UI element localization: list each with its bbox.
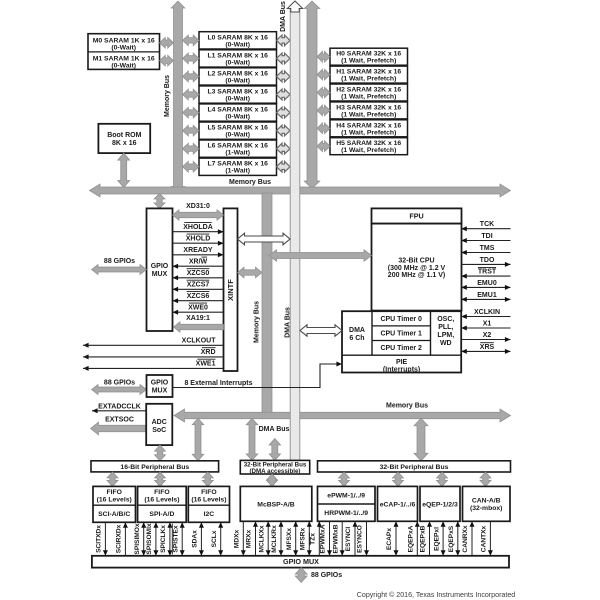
arrow H2-bus xyxy=(317,87,330,98)
svg-text:CPU Timer 0: CPU Timer 0 xyxy=(380,316,422,323)
svg-text:EQEPxI: EQEPxI xyxy=(433,527,440,551)
pin EPWMxA xyxy=(320,521,332,556)
svg-text:16-Bit Peripheral Bus: 16-Bit Peripheral Bus xyxy=(120,464,189,471)
svg-text:H3 SARAM 32K x 16: H3 SARAM 32K x 16 xyxy=(336,104,401,111)
svg-text:WD: WD xyxy=(440,340,452,347)
svg-text:Copyright © 2016, Texas Instru: Copyright © 2016, Texas Instruments Inco… xyxy=(357,591,516,599)
label L5 SARAM xyxy=(207,125,268,139)
svg-text:CPU Timer 1: CPU Timer 1 xyxy=(380,331,422,338)
signal XWE0 xyxy=(173,303,224,315)
svg-text:EQEPxS: EQEPxS xyxy=(448,525,455,552)
box McBSP-A/B xyxy=(240,486,311,521)
pin CANRXx xyxy=(462,521,474,556)
arrow H0-bus xyxy=(317,51,330,62)
label DMA Bus (above peripheral bus) xyxy=(259,426,290,433)
label M0 SARAM xyxy=(93,38,155,52)
pin MRXx xyxy=(246,521,258,556)
svg-text:SCITXDx: SCITXDx xyxy=(96,525,103,553)
svg-text:(Interrupts): (Interrupts) xyxy=(383,366,420,373)
box M0/M1 SARAM outer xyxy=(88,34,160,70)
label OSC PLL LPM WD xyxy=(437,316,454,347)
svg-text:L0 SARAM 8K x 16: L0 SARAM 8K x 16 xyxy=(207,34,268,41)
pin TZx xyxy=(309,521,321,556)
label GPIO MUX xyxy=(151,263,169,278)
pin ECAPx xyxy=(386,521,398,556)
svg-text:EXTSOC: EXTSOC xyxy=(105,416,134,423)
box L6 SARAM xyxy=(199,140,277,157)
svg-text:(1-Wait): (1-Wait) xyxy=(225,168,250,175)
label CPU Timer 2 xyxy=(380,345,422,352)
pin SCLx xyxy=(211,522,223,556)
pin TCK xyxy=(461,221,510,231)
label SPI-A/D xyxy=(149,511,174,518)
arrow 88 GPIOs (upper) xyxy=(92,265,147,275)
svg-text:L2 SARAM 8K x 16: L2 SARAM 8K x 16 xyxy=(207,70,268,77)
svg-text:(0-Wait): (0-Wait) xyxy=(225,96,250,103)
pin SDAx xyxy=(192,522,204,556)
pin SPISOMIx xyxy=(146,522,158,556)
divider PIE top xyxy=(342,354,461,356)
arrow XINTF-memorybus (gray) xyxy=(238,267,263,278)
svg-text:(1 Wait, Prefetch): (1 Wait, Prefetch) xyxy=(341,111,396,118)
svg-text:MUX: MUX xyxy=(152,388,168,395)
svg-text:8 External Interrupts: 8 External Interrupts xyxy=(184,380,252,387)
svg-text:H4 SARAM 32K x 16: H4 SARAM 32K x 16 xyxy=(336,122,401,129)
svg-text:XZCS0: XZCS0 xyxy=(187,270,210,277)
svg-text:SCLx: SCLx xyxy=(211,530,218,547)
svg-text:XWE1: XWE1 xyxy=(196,360,216,367)
svg-text:(32-mbox): (32-mbox) xyxy=(470,505,502,512)
arrow L7-memorybus xyxy=(183,161,200,172)
label CAN-A/B xyxy=(470,498,502,512)
svg-text:GPIO: GPIO xyxy=(151,263,169,270)
wire 8 external interrupts to PIE xyxy=(173,362,343,388)
wire 8 external interrupts (over buses) xyxy=(173,387,321,389)
label L3 SARAM xyxy=(207,89,268,103)
label 8 External Interrupts xyxy=(184,380,252,387)
box L1 SARAM xyxy=(199,50,277,67)
svg-text:SPICLKx: SPICLKx xyxy=(160,525,167,553)
signal XZCS6 xyxy=(173,292,224,304)
box L2 SARAM xyxy=(199,68,277,85)
divider M0/M1 xyxy=(88,51,160,53)
svg-text:H5 SARAM 32K x 16: H5 SARAM 32K x 16 xyxy=(336,140,401,147)
svg-text:XINTF: XINTF xyxy=(226,279,235,301)
svg-text:EXTADCCLK: EXTADCCLK xyxy=(98,404,141,411)
svg-text:EPWMxA: EPWMxA xyxy=(320,524,327,553)
label L2 SARAM xyxy=(207,70,268,84)
svg-text:(16 Levels): (16 Levels) xyxy=(97,496,132,503)
signal XZCS0 xyxy=(173,269,224,281)
signal XRD xyxy=(83,348,224,360)
pin EQEPxB xyxy=(420,521,432,556)
box H1 SARAM xyxy=(330,66,408,83)
svg-text:Memory Bus: Memory Bus xyxy=(386,402,428,409)
pin X2 xyxy=(461,332,510,342)
arrow M1-memorybus xyxy=(160,55,174,66)
arrow 16bitbus-FIFO at 112.5 xyxy=(107,472,118,487)
svg-text:L6 SARAM 8K x 16: L6 SARAM 8K x 16 xyxy=(207,143,268,150)
label H2 SARAM xyxy=(336,87,401,101)
signal XWE1 xyxy=(83,359,224,371)
box 32-Bit CPU xyxy=(372,224,462,311)
svg-text:GPIO: GPIO xyxy=(151,380,169,387)
label CPU Timer 0 xyxy=(380,316,422,323)
svg-text:MFSXx: MFSXx xyxy=(286,528,293,550)
svg-text:MFSRx: MFSRx xyxy=(300,527,307,550)
label L1 SARAM xyxy=(207,52,268,66)
pin MCLKRx xyxy=(271,521,283,556)
label: Memory Bus (vertical, top left) xyxy=(164,75,171,117)
bus: horizontal Memory Bus (lower) xyxy=(174,409,511,422)
svg-text:88 GPIOs: 88 GPIOs xyxy=(104,379,135,386)
svg-text:H2 SARAM 32K x 16: H2 SARAM 32K x 16 xyxy=(336,87,401,94)
svg-text:DMA Bus: DMA Bus xyxy=(280,1,287,32)
box L7 SARAM xyxy=(199,158,277,175)
label I2C xyxy=(204,511,215,518)
svg-text:XRS: XRS xyxy=(480,344,495,351)
svg-text:M1 SARAM 1K x 16: M1 SARAM 1K x 16 xyxy=(93,56,155,63)
arrow EXTSOC xyxy=(91,422,147,435)
divider FIFO/SPI-A/D xyxy=(138,504,187,506)
svg-text:ECAPx: ECAPx xyxy=(386,528,393,550)
arrow L7-dmabus (white) xyxy=(277,161,291,172)
svg-text:GPIO MUX: GPIO MUX xyxy=(283,557,319,566)
svg-text:MUX: MUX xyxy=(152,271,168,278)
box L5 SARAM xyxy=(199,122,277,139)
label H0 SARAM xyxy=(336,51,401,65)
svg-text:XHOLDA: XHOLDA xyxy=(183,224,213,231)
svg-text:ePWM-1/../9: ePWM-1/../9 xyxy=(327,493,365,500)
arrow ADC-16bitbus xyxy=(155,445,166,461)
box ePWM/HRPWM xyxy=(318,486,376,521)
label EXTADCCLK xyxy=(98,404,141,411)
label: DMA Bus (vertical, middle) xyxy=(285,307,292,338)
svg-text:CANRXx: CANRXx xyxy=(462,525,469,552)
svg-text:TDI: TDI xyxy=(481,233,492,240)
svg-text:(1 Wait, Prefetch): (1 Wait, Prefetch) xyxy=(341,129,396,136)
bus: horizontal Memory Bus (upper) xyxy=(90,184,511,197)
svg-text:ESYNCO: ESYNCO xyxy=(357,525,364,553)
svg-text:L3 SARAM 8K x 16: L3 SARAM 8K x 16 xyxy=(207,89,268,96)
box GPIO MUX bar xyxy=(92,556,509,568)
pin SPICLKx xyxy=(160,522,172,556)
svg-text:L5 SARAM 8K x 16: L5 SARAM 8K x 16 xyxy=(207,125,268,132)
svg-text:(0-Wait): (0-Wait) xyxy=(225,41,250,48)
svg-text:XCLKOUT: XCLKOUT xyxy=(182,337,217,344)
label 32-Bit CPU xyxy=(388,257,446,279)
pin MDXx xyxy=(234,521,246,556)
svg-text:LPM,: LPM, xyxy=(437,332,454,339)
box GPIO MUX (XINTF side) xyxy=(147,208,173,331)
svg-text:MDXx: MDXx xyxy=(234,530,241,549)
svg-text:X1: X1 xyxy=(483,321,492,328)
label GPIO MUX 2 xyxy=(151,380,169,395)
svg-text:XRD: XRD xyxy=(201,349,216,356)
label eCAP xyxy=(380,501,416,508)
arrow M0-memorybus xyxy=(160,37,174,48)
pin ESYNCI xyxy=(345,521,357,556)
signal XHOLDA xyxy=(173,223,224,235)
svg-text:(0-Wait): (0-Wait) xyxy=(225,114,250,121)
arrow XA19:1 (to GPIO MUX) xyxy=(174,322,224,332)
arrow 32bitbus-peripheral at 485.5 xyxy=(480,472,491,486)
arrow L2-memorybus xyxy=(183,71,200,82)
label copyright xyxy=(357,591,516,599)
pin SCITXDx xyxy=(96,522,108,556)
label EXTSOC xyxy=(105,416,134,423)
svg-text:FIFO: FIFO xyxy=(106,489,121,496)
svg-text:L7 SARAM 8K x 16: L7 SARAM 8K x 16 xyxy=(207,161,268,168)
arrow L6-dmabus (white) xyxy=(277,143,291,154)
svg-text:32-Bit Peripheral Bus: 32-Bit Peripheral Bus xyxy=(380,464,449,471)
svg-text:XCLKIN: XCLKIN xyxy=(474,309,500,316)
svg-text:HRPWM-1/../9: HRPWM-1/../9 xyxy=(324,510,368,517)
svg-text:EQEPxA: EQEPxA xyxy=(408,525,415,552)
box FIFO/SCI-A/B/C xyxy=(93,486,136,522)
label PIE xyxy=(383,359,420,374)
arrow memorybus2-16bitbus xyxy=(192,418,204,461)
svg-text:SCIRXDx: SCIRXDx xyxy=(116,524,123,553)
svg-text:Memory Bus: Memory Bus xyxy=(254,301,261,343)
label L0 SARAM xyxy=(207,34,268,48)
divider FIFO/SCI-A/B/C xyxy=(93,504,136,506)
arrow XD31:0 bus xyxy=(173,210,224,220)
pin XCLKIN xyxy=(461,309,510,319)
svg-text:8K x 16: 8K x 16 xyxy=(112,140,137,147)
svg-text:XD31:0: XD31:0 xyxy=(186,203,210,210)
pin EMU1 xyxy=(461,292,510,302)
box L4 SARAM xyxy=(199,104,277,121)
svg-text:XHOLD: XHOLD xyxy=(186,235,211,242)
signal XR/W xyxy=(173,257,224,269)
svg-text:eCAP-1/../6: eCAP-1/../6 xyxy=(380,501,416,508)
svg-text:XZCS6: XZCS6 xyxy=(187,293,210,300)
label H5 SARAM xyxy=(336,140,401,154)
bus: vertical Memory Bus (top left) xyxy=(171,1,185,194)
svg-text:EMU0: EMU0 xyxy=(477,280,497,287)
box DMA-Timers-OSC-PIE outer xyxy=(342,311,461,372)
label Boot ROM xyxy=(107,132,141,147)
box CAN-A/B xyxy=(463,486,511,521)
label: Memory Bus (lower horizontal) xyxy=(386,402,428,409)
label HRPWM xyxy=(324,510,368,517)
svg-text:6 Ch: 6 Ch xyxy=(349,335,364,342)
arrow memorybus2-32bitbus xyxy=(414,418,428,461)
svg-text:TCK: TCK xyxy=(480,221,494,228)
svg-text:(0-Wait): (0-Wait) xyxy=(225,77,250,84)
svg-text:Boot ROM: Boot ROM xyxy=(107,132,141,139)
svg-text:SPI-A/D: SPI-A/D xyxy=(149,511,174,518)
box H0 SARAM xyxy=(330,48,408,65)
pin EQEPxS xyxy=(448,521,460,556)
svg-text:MRXx: MRXx xyxy=(246,530,253,549)
pin EQEPxA xyxy=(408,521,420,556)
box H2 SARAM xyxy=(330,84,408,101)
arrow L1-dmabus (white) xyxy=(277,53,291,64)
box H5 SARAM xyxy=(330,138,408,155)
svg-text:FIFO: FIFO xyxy=(154,489,169,496)
svg-text:SPISTEx: SPISTEx xyxy=(172,525,179,552)
arrow L5-memorybus xyxy=(183,125,200,136)
svg-text:CAN-A/B: CAN-A/B xyxy=(472,498,501,505)
pin EPWMxB xyxy=(332,521,344,556)
label 88 GPIOs (upper) xyxy=(104,258,135,265)
svg-text:(1 Wait, Prefetch): (1 Wait, Prefetch) xyxy=(341,58,396,65)
svg-text:TMS: TMS xyxy=(480,245,495,252)
arrow 16bitbus-FIFO at 207.8 xyxy=(202,472,213,487)
box L0 SARAM xyxy=(199,32,277,49)
svg-text:88 GPIOs: 88 GPIOs xyxy=(311,572,342,579)
pin TMS xyxy=(461,245,510,255)
arrow L2-dmabus (white) xyxy=(277,71,291,82)
svg-text:SDAx: SDAx xyxy=(192,530,199,548)
divider timer2 xyxy=(372,340,431,342)
svg-text:M0 SARAM 1K x 16: M0 SARAM 1K x 16 xyxy=(93,38,155,45)
label McBSP-A/B xyxy=(257,501,294,508)
label XA19:1 xyxy=(186,315,210,322)
pin MCLKXx xyxy=(258,521,270,556)
arrow DMAbus-DMA (white) xyxy=(300,325,342,336)
svg-text:PIE: PIE xyxy=(396,359,408,366)
label L4 SARAM xyxy=(207,107,268,121)
svg-text:SoC: SoC xyxy=(152,427,166,434)
arrow memorybus-CPU xyxy=(269,250,372,261)
signal EXTADCCLK xyxy=(92,408,146,413)
arrow 88 GPIOs (bottom) xyxy=(295,568,307,583)
label XD31:0 xyxy=(186,203,210,210)
svg-text:McBSP-A/B: McBSP-A/B xyxy=(257,501,294,508)
label ADC SoC xyxy=(152,419,167,434)
box XINTF xyxy=(224,208,238,371)
svg-text:TZx: TZx xyxy=(310,533,317,545)
signal XHOLD xyxy=(173,234,224,246)
svg-text:eQEP-1/2/3: eQEP-1/2/3 xyxy=(422,501,458,508)
svg-text:(1 Wait, Prefetch): (1 Wait, Prefetch) xyxy=(341,94,396,101)
svg-text:TRST: TRST xyxy=(478,269,497,276)
pin CANTXx xyxy=(481,521,493,556)
arrow memorybus2-dmaaccbus xyxy=(246,418,258,460)
label: Memory Bus (vertical, middle) xyxy=(254,301,261,343)
svg-text:(0-Wait): (0-Wait) xyxy=(225,132,250,139)
svg-text:H1 SARAM 32K x 16: H1 SARAM 32K x 16 xyxy=(336,69,401,76)
signal XCLKOUT xyxy=(83,337,224,347)
box FIFO/I2C xyxy=(188,486,229,522)
arrow XINTF-DMAbus (white) xyxy=(238,233,291,245)
box FPU xyxy=(372,208,462,223)
pin EMU0 xyxy=(461,280,510,290)
svg-text:(1 Wait, Prefetch): (1 Wait, Prefetch) xyxy=(341,76,396,83)
box H4 SARAM xyxy=(330,120,408,137)
box H3 SARAM xyxy=(330,102,408,119)
arrow L6-memorybus xyxy=(183,143,200,154)
label GPIO MUX bar xyxy=(283,557,319,566)
svg-text:I2C: I2C xyxy=(204,511,215,518)
box L3 SARAM xyxy=(199,86,277,103)
divider timer1 xyxy=(372,325,431,327)
svg-text:32-Bit CPU: 32-Bit CPU xyxy=(398,257,434,264)
label L7 SARAM xyxy=(207,161,268,175)
signal XZCS7 xyxy=(173,280,224,292)
svg-text:ADC: ADC xyxy=(152,419,167,426)
svg-text:OSC,: OSC, xyxy=(437,316,454,323)
svg-text:FPU: FPU xyxy=(409,212,423,221)
label DMA 6 Ch xyxy=(349,327,365,342)
svg-text:88 GPIOs: 88 GPIOs xyxy=(104,258,135,265)
svg-text:Memory Bus: Memory Bus xyxy=(164,75,171,117)
pin SPISIMOx xyxy=(134,522,146,556)
svg-text:(0-Wait): (0-Wait) xyxy=(111,45,136,52)
label 16-Bit Peripheral Bus xyxy=(120,464,189,471)
arrow H5-bus xyxy=(317,141,330,152)
svg-text:EPWMxB: EPWMxB xyxy=(332,524,339,553)
svg-text:X2: X2 xyxy=(483,332,492,339)
label XINTF (vertical) xyxy=(226,279,235,301)
bus: vertical DMA Bus (white) xyxy=(287,1,302,460)
label ePWM xyxy=(327,493,365,500)
svg-text:SPISIMOx: SPISIMOx xyxy=(134,523,141,554)
svg-text:(300 MHz @ 1.2 V: (300 MHz @ 1.2 V xyxy=(388,265,446,272)
arrow 32bitbus-peripheral at 442 xyxy=(437,472,448,486)
arrow H1-bus xyxy=(317,69,330,80)
svg-text:MCLKRx: MCLKRx xyxy=(271,525,278,553)
arrow L4-memorybus xyxy=(183,107,200,118)
pin MFSRx xyxy=(300,521,312,556)
svg-text:FIFO: FIFO xyxy=(201,489,216,496)
arrow 16bitbus-FIFO at 160 xyxy=(155,472,166,487)
box eCAP xyxy=(378,486,418,521)
pin EQEPxI xyxy=(433,521,445,556)
svg-text:(1 Wait, Prefetch): (1 Wait, Prefetch) xyxy=(341,147,396,154)
bus: vertical memory bus (top, H-RAM column) xyxy=(304,1,320,189)
svg-text:SPISOMIx: SPISOMIx xyxy=(146,523,153,554)
box GPIO MUX (interrupt side) xyxy=(147,375,173,397)
svg-text:(0-Wait): (0-Wait) xyxy=(225,59,250,66)
signal XREADY xyxy=(173,247,224,257)
svg-text:CPU Timer 2: CPU Timer 2 xyxy=(380,345,422,352)
arrow BootROM-memorybus xyxy=(118,153,130,187)
svg-text:(DMA accessible): (DMA accessible) xyxy=(249,468,300,475)
arrow 88 GPIOs (middle) xyxy=(92,385,147,395)
box ADC SoC xyxy=(146,404,172,445)
arrow L4-dmabus (white) xyxy=(277,107,291,118)
label 88 GPIOs (bottom) xyxy=(311,572,342,579)
svg-text:L1 SARAM 8K x 16: L1 SARAM 8K x 16 xyxy=(207,52,268,59)
arrow 32bitbus-peripheral at 398 xyxy=(393,472,404,486)
arrow L1-memorybus xyxy=(183,53,200,64)
svg-text:PLL,: PLL, xyxy=(438,324,453,331)
label FPU xyxy=(409,212,423,221)
pin TDI xyxy=(461,233,510,243)
box Boot ROM xyxy=(98,124,150,153)
pin ESYNCO xyxy=(357,521,369,556)
label 32-Bit Peripheral Bus xyxy=(380,464,449,471)
arrow 32bitbus-peripheral at 344 xyxy=(339,472,350,486)
svg-text:EQEPxB: EQEPxB xyxy=(420,525,427,552)
svg-text:XR/W: XR/W xyxy=(189,258,208,265)
svg-text:XZCS7: XZCS7 xyxy=(187,281,210,288)
label FIFO 0 xyxy=(97,489,132,503)
box FIFO/SPI-A/D xyxy=(138,486,187,522)
box 16-Bit Peripheral Bus xyxy=(91,461,219,472)
pin TDO xyxy=(461,257,510,267)
svg-text:SCI-A/B/C: SCI-A/B/C xyxy=(98,511,130,518)
pin TRST xyxy=(461,267,510,278)
divider FIFO/I2C xyxy=(188,504,229,506)
pin X1 xyxy=(461,321,510,331)
arrow L3-dmabus (white) xyxy=(277,89,291,100)
svg-text:Memory Bus: Memory Bus xyxy=(229,179,271,186)
